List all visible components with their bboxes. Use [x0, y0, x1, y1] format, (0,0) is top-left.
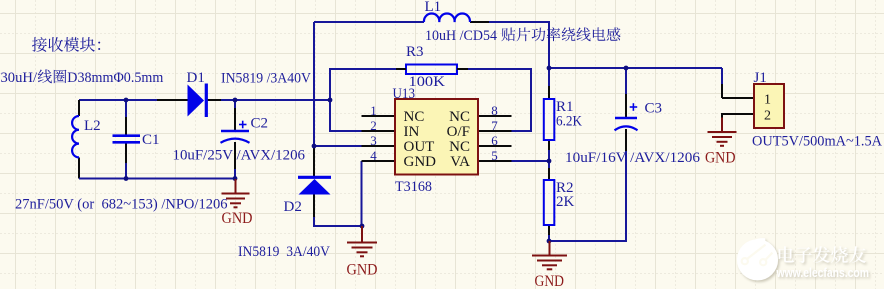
wire bottom rail y=178.5 [79, 178, 235, 180]
pin R2 bottom [548, 225, 550, 236]
pin J1 pin2 lead [722, 114, 754, 125]
svg-text:NC: NC [449, 109, 470, 125]
svg-text:D38mmΦ0.5mm: D38mmΦ0.5mm [67, 70, 163, 86]
pin U13 pin6 lead [478, 145, 512, 147]
svg-text:6: 6 [491, 133, 498, 148]
junction R2 gnd node [547, 239, 552, 244]
svg-text:OUT: OUT [404, 139, 435, 155]
pin D2 cathode [313, 146, 315, 177]
svg-text:GND: GND [347, 262, 378, 279]
pin R1 bottom [548, 140, 550, 151]
svg-text:10uF/16V /AVX/1206: 10uF/16V /AVX/1206 [565, 150, 700, 166]
svg-text:GND: GND [535, 273, 565, 289]
pin U13 pin2 lead [362, 130, 396, 132]
wire input rail left of D1 [79, 99, 157, 101]
junction C1 bottom [124, 176, 129, 181]
wire top rail from switch node to L1 [314, 21, 424, 23]
wire C3 top to rail [625, 68, 627, 94]
ground at D2 [347, 226, 377, 256]
junction switch node [312, 144, 317, 149]
svg-text:OUT5V/500mA~1.5A: OUT5V/500mA~1.5A [752, 134, 882, 150]
wire D2 anode to gnd node [314, 216, 362, 226]
svg-text:D2: D2 [284, 199, 302, 215]
svg-text:6.2K: 6.2K [556, 114, 582, 130]
svg-text:VA: VA [450, 154, 470, 170]
ground at C2 [222, 179, 250, 207]
svg-text:L1: L1 [425, 0, 442, 15]
svg-text:R3: R3 [406, 44, 424, 60]
wire R1 top to rail [548, 68, 550, 86]
svg-text:T3168: T3168 [395, 179, 432, 195]
pin L2 bottom [78, 158, 80, 179]
pin C1 top [125, 117, 127, 136]
pin R2 top [548, 168, 550, 180]
svg-text:GND: GND [404, 154, 437, 170]
resistor R1 [544, 99, 555, 140]
pin C2 bottom [234, 142, 236, 170]
watermark text 电子发烧友 www.elecfans.com [776, 246, 869, 280]
capacitor C1 [113, 134, 141, 137]
wire L1 to output rail corner [489, 22, 549, 68]
pin U13 pin5 lead [478, 160, 512, 162]
svg-text:2: 2 [764, 109, 771, 124]
wire C2 bottom stub [234, 169, 236, 179]
pin R3 left [396, 68, 406, 70]
wire down to J1 pin1 [721, 68, 723, 84]
junction C2 bottom [233, 176, 238, 181]
svg-text:D1: D1 [187, 70, 205, 86]
diode D2 [298, 176, 331, 179]
pin D1 cathode [206, 99, 222, 101]
wire R2 bottom to gnd node [548, 235, 550, 241]
svg-text:IN: IN [404, 124, 420, 140]
pin U13 pin3 lead [362, 145, 396, 147]
wire R3 left branch x=330 [330, 69, 396, 100]
wire R3 node down to IN pin2 [330, 100, 363, 131]
pin U13 pin1 lead [362, 115, 396, 117]
svg-text:1: 1 [764, 93, 771, 108]
junction R1 top rail [547, 66, 552, 71]
svg-text:10uH /CD54: 10uH /CD54 [425, 28, 497, 44]
svg-text:C3: C3 [645, 101, 663, 117]
capacitor C3 polarized [615, 117, 637, 120]
svg-text:2K: 2K [556, 194, 575, 210]
wire R1-R2 divider node [548, 150, 550, 169]
wire VA pin5 to divider [511, 160, 549, 162]
diode D1 [188, 85, 205, 117]
svg-text:10uF/25V /AVX/1206: 10uF/25V /AVX/1206 [173, 148, 306, 164]
pin C2 top [234, 108, 236, 131]
svg-text:IN5819 /3A40V: IN5819 /3A40V [221, 71, 311, 87]
wire L1 right stub [470, 21, 489, 23]
wire OUT pin3 to switch node [314, 145, 362, 147]
junction R3 branch [328, 98, 333, 103]
junction feedback node [547, 159, 552, 164]
junction C3 top rail [624, 66, 629, 71]
junction C2 top [233, 98, 238, 103]
svg-text:IN5819 3A/40V: IN5819 3A/40V [238, 244, 330, 260]
svg-text:3: 3 [370, 133, 377, 148]
svg-text:7: 7 [491, 118, 498, 133]
wire C1 bottom stub [125, 163, 127, 179]
wire C2 top stub [234, 100, 236, 109]
svg-text:4: 4 [370, 148, 377, 163]
pin R3 right [457, 68, 468, 70]
capacitor C2 polarized [221, 130, 249, 133]
svg-text:www.elecfans.com: www.elecfans.com [776, 266, 869, 280]
svg-text:30uH/: 30uH/ [1, 70, 38, 86]
svg-text:C1: C1 [142, 132, 160, 148]
pin C3 top [625, 93, 627, 118]
connector J1 body [754, 84, 784, 128]
pin J1 pin1 lead [722, 97, 754, 99]
label 接收模块： [32, 37, 100, 52]
pin C1 bottom [125, 143, 127, 165]
svg-text:C2: C2 [251, 116, 269, 132]
svg-text:1: 1 [370, 103, 377, 118]
pin D2 anode [313, 194, 315, 217]
pin U13 pin4 lead [362, 160, 396, 162]
ground at R2 [532, 241, 567, 269]
wire GND pin4 down [361, 161, 364, 226]
svg-text:J1: J1 [754, 70, 767, 86]
inductor L1 [424, 14, 470, 22]
svg-text:NC: NC [404, 109, 425, 125]
svg-text:8: 8 [491, 103, 498, 118]
ground at J1 [721, 124, 723, 131]
wire C3 bottom to gnd node [549, 150, 626, 241]
svg-text:2: 2 [370, 118, 377, 133]
svg-text:L2: L2 [84, 118, 101, 134]
pin D1 anode [157, 99, 188, 101]
pin C3 bottom [625, 129, 627, 151]
svg-text:5: 5 [491, 148, 498, 163]
wire output rail VOUT y=68 [549, 67, 722, 69]
svg-text:GND: GND [222, 210, 253, 227]
resistor R3 [406, 65, 457, 75]
svg-text:NC: NC [449, 139, 470, 155]
pin U13 pin8 lead [478, 115, 512, 117]
svg-text:27nF/50V (or 682~153) /NPO/12: 27nF/50V (or 682~153) /NPO/1206 [15, 197, 228, 213]
pin U13 pin7 lead [478, 130, 512, 132]
inductor L2 [72, 116, 79, 157]
svg-text:U13: U13 [393, 86, 416, 102]
op-amp U13 T3168 body [395, 99, 478, 175]
pin L2 top [78, 100, 80, 116]
resistor R2 [544, 180, 555, 225]
wire R3 right loop to O/F pin7 [467, 69, 531, 131]
junction C1 top [124, 98, 129, 103]
svg-text:O/F: O/F [447, 124, 470, 140]
junction D2 gnd node [360, 224, 365, 229]
wire C1 top stub [125, 100, 127, 118]
pin R1 top [548, 85, 550, 99]
wire D1 cathode to R3 node [221, 99, 330, 101]
wire switch-node vertical x=314 [313, 22, 315, 146]
svg-text:GND: GND [705, 150, 736, 167]
